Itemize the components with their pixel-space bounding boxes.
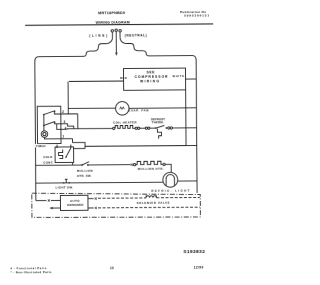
plug left prong	[111, 32, 113, 37]
wire defrost to neutral bus	[173, 127, 197, 129]
wire timer terminal 3 to defrost circuit	[61, 124, 74, 129]
svg-text:1: 1	[62, 135, 64, 139]
optional equipment boundary (dash-dot)	[32, 192, 201, 218]
wire icemaker lower	[88, 207, 94, 209]
timer junction dot	[54, 121, 56, 123]
defrost thermostat phial	[157, 129, 161, 139]
light switch contact dot	[63, 182, 65, 184]
wire	[51, 199, 61, 201]
wire compressor white lead to neutral bus	[186, 78, 197, 80]
mullion heater terminal	[163, 163, 165, 165]
wire riser timer2 to compressor	[67, 81, 69, 113]
timer box	[37, 106, 61, 143]
svg-text:TIMER: TIMER	[36, 144, 47, 148]
wire timer terminal 2	[61, 113, 78, 115]
wire stub to neutral bus	[186, 144, 197, 146]
svg-text:MULLION HTR.: MULLION HTR.	[138, 167, 164, 171]
wire	[88, 164, 131, 166]
coil heater element	[115, 125, 135, 128]
wire icemaker to solenoid	[88, 198, 94, 200]
compressor box	[123, 68, 185, 90]
svg-text:(LINE): (LINE)	[89, 34, 107, 38]
icemaker connector mark	[48, 199, 50, 201]
cold control terminal dot	[70, 146, 72, 148]
cold control box	[55, 147, 74, 163]
svg-text:ICEMAKER: ICEMAKER	[67, 203, 84, 207]
wire dashed to solenoid	[98, 197, 146, 199]
power cord plug prong loops	[111, 29, 121, 32]
wire step	[73, 143, 86, 149]
icemaker fill tube arrow	[53, 207, 61, 209]
timer motor M1	[41, 131, 48, 138]
wire timer terminal 1	[61, 138, 72, 140]
light switch plunger	[65, 179, 68, 183]
wire light switch line	[36, 181, 163, 184]
wire junction vertical	[71, 139, 73, 143]
wire mullion heater line	[36, 164, 82, 166]
timer internal wire to terminal 4	[57, 124, 61, 130]
timer junction dot	[54, 110, 56, 112]
cold control arm	[66, 148, 71, 157]
refrigerator light lamp	[163, 172, 178, 187]
svg-text:COIL HEATER: COIL HEATER	[113, 120, 137, 124]
svg-text:COLD: COLD	[43, 155, 52, 159]
svg-text:(NEUTRAL): (NEUTRAL)	[125, 33, 147, 37]
svg-text:MULLION: MULLION	[77, 169, 93, 173]
svg-text:* - Non-Illustrated Parts: * - Non-Illustrated Parts	[10, 270, 51, 274]
wire to refrigerator light	[165, 164, 171, 172]
evap fan motor	[116, 102, 129, 115]
defrost thermostat terminals	[168, 127, 170, 129]
water solenoid valve coil	[146, 195, 156, 197]
wire timer terminal 4 to defrost circuit	[61, 128, 67, 131]
cold control terminal tick	[56, 145, 58, 147]
mullion heater connector mark	[131, 164, 133, 166]
svg-text:RED: RED	[120, 76, 127, 80]
svg-text:REFRIG. LIGHT: REFRIG. LIGHT	[151, 189, 189, 193]
evap fan motor winding mark	[120, 107, 125, 109]
timer junction dot	[43, 114, 45, 116]
defrost thermostat contact dot	[155, 127, 157, 129]
svg-text:5995309131: 5995309131	[184, 13, 209, 17]
wire evap fan to neutral bus	[129, 107, 196, 109]
wire solenoid to boundary	[156, 196, 199, 198]
timer label background	[35, 144, 46, 147]
svg-text:EVAP. FAN: EVAP. FAN	[128, 108, 148, 112]
cold control contact dot	[65, 156, 67, 158]
wire defrost circuit horizontal	[67, 127, 113, 129]
wire jog down to defrost line	[77, 114, 79, 129]
wire lamp to neutral bus	[178, 180, 197, 182]
wire dashed lower run	[98, 206, 200, 209]
svg-text:S193832: S193832	[183, 249, 205, 255]
auto icemaker box	[60, 195, 88, 210]
svg-text:MRT18PNBD0: MRT18PNBD0	[98, 11, 125, 15]
wire evap fan feed	[68, 107, 115, 109]
timer junction dot	[43, 125, 45, 127]
wire cold control to junction	[74, 148, 85, 150]
connector pair	[145, 127, 147, 129]
wire vertical to compressor box	[185, 90, 187, 146]
connector	[138, 127, 140, 129]
mullion switch contact dot	[87, 164, 89, 166]
wire neutral-side bus (right)	[120, 37, 197, 194]
timer internal wire to terminal 3	[55, 122, 61, 124]
svg-text:3: 3	[63, 120, 65, 124]
wire cold control to mullion line	[72, 162, 74, 165]
svg-text:SOLENOID VALVE: SOLENOID VALVE	[137, 201, 170, 205]
timer motor inner	[43, 133, 46, 136]
ground arrow	[115, 53, 117, 56]
svg-text:LIGHT SW.: LIGHT SW.	[55, 186, 73, 190]
cold control capillary	[58, 149, 62, 158]
connector mark	[95, 197, 97, 199]
timer switch arm 2	[44, 122, 54, 126]
defrost thermostat arm	[156, 125, 165, 128]
ground pin wire	[115, 32, 117, 53]
wire	[150, 127, 155, 129]
mullion switch arm	[82, 162, 89, 165]
wire icemaker feed	[36, 200, 47, 202]
timer internal wire	[54, 111, 60, 114]
wire compressor red lead	[69, 80, 123, 82]
svg-text:WHITE: WHITE	[173, 74, 185, 78]
timer switch arm 1	[44, 111, 54, 115]
timer left internal wire	[43, 115, 45, 131]
svg-text:THERM.: THERM.	[152, 120, 164, 124]
defrost thermostat contact dot	[166, 127, 168, 129]
svg-text:WIRING: WIRING	[140, 79, 159, 83]
mullion heater terminal	[133, 164, 135, 166]
cold control terminal tick	[70, 145, 72, 147]
light switch contact dot	[68, 182, 70, 184]
svg-text:HTR. SW.: HTR. SW.	[77, 174, 92, 178]
connector mark	[95, 207, 97, 209]
svg-text:CONT.: CONT.	[43, 160, 53, 164]
coil heater right terminal	[135, 127, 137, 129]
timer motor lead	[44, 137, 61, 139]
cold control terminal dot	[56, 146, 58, 148]
header rule	[25, 23, 213, 25]
coil heater left terminal	[113, 127, 115, 129]
wire run to compressor	[85, 145, 186, 148]
wire	[140, 127, 145, 129]
mullion heater element	[136, 161, 163, 164]
mullion switch contact dot	[81, 164, 83, 166]
lamp filament	[166, 174, 174, 185]
svg-text:2: 2	[62, 110, 64, 114]
svg-text:12/99: 12/99	[194, 265, 204, 269]
svg-text:13: 13	[110, 266, 114, 270]
plug right prong	[119, 32, 121, 37]
svg-text:4: 4	[65, 127, 67, 131]
wire line-side bus (left)	[35, 37, 114, 200]
